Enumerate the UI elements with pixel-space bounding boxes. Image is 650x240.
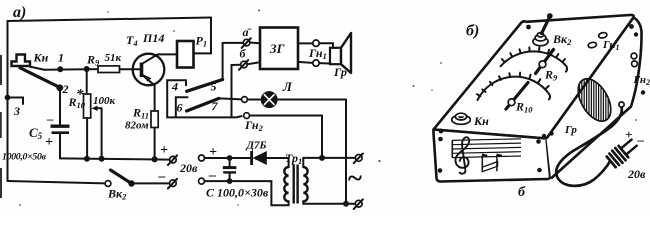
svg-text:+: + [160,143,168,158]
wire: Гн2 line down to secondary top [321,116,323,158]
node: junction on left rail [5,95,11,101]
generator ЗГ [260,28,298,70]
capacitor C 100,0x30в [206,155,269,199]
bottom rail [60,158,170,159]
wire: secondary bottom to ~ terminal [303,203,355,205]
svg-text:4: 4 [171,80,178,94]
rectifier + input terminal [199,145,252,161]
speaker Гр [319,33,351,79]
svg-text:82ом: 82ом [125,120,149,132]
switch Вк2 [105,170,170,202]
potentiometer R10 100к [68,69,116,159]
capacitor C5 [2,88,70,163]
svg-text:5: 5 [211,80,217,94]
terminal 3 stub [8,98,24,105]
jack pair Гн2 on right face [631,53,650,87]
power plug [606,136,639,168]
svg-text:*: * [76,87,84,103]
svg-text:Гр: Гр [333,65,347,79]
device box front face [434,130,551,182]
button Кн on top face [452,113,489,128]
svg-text:–: – [46,111,54,126]
svg-text:Л: Л [282,79,293,94]
svg-text:2: 2 [62,82,69,96]
resistor R11 82ом [125,106,158,159]
notes [482,155,497,172]
resistor R9 51к [86,52,133,73]
dial scale R9 [501,47,567,82]
node a terminal net [223,25,260,79]
jack Гн1 (pair of sockets) [308,40,327,66]
wire: left rail [7,21,9,181]
relay coil P1 [177,34,207,68]
toggle switch Вк2 [533,13,572,47]
wire: button to node 1 to R9 [30,67,98,70]
relay contact group 4-5-6-7 [167,80,242,118]
wire: secondary top to ~ terminal [303,157,355,159]
svg-text:1: 1 [58,51,64,65]
terminal ~ top (slashed) [355,155,362,162]
musical staff on front face [452,137,521,173]
svg-text:~: ~ [347,163,362,193]
terminal -20в (slashed) [158,169,178,189]
junction node above R10 [84,66,90,72]
wire: bottom switch rail [8,181,106,183]
node б terminal net [232,47,261,118]
svg-text:+: + [625,127,632,142]
svg-text:7: 7 [212,99,219,113]
wire: top rail [8,18,212,22]
treble clef [455,137,469,173]
svg-text:б: б [240,47,247,61]
svg-text:Гр: Гр [564,124,577,136]
svg-text:–: – [637,132,645,147]
svg-text:100к: 100к [93,95,116,107]
transformer Тр1 [271,151,307,205]
wire: lamp line down right side [345,100,347,204]
device box top face [434,15,634,139]
svg-text:3: 3 [13,104,20,118]
svg-text:б: б [518,185,526,200]
jack pair Гн1 on top face [588,32,620,52]
screws on top face [439,129,444,134]
speaker grille [564,73,618,136]
svg-text:ЗГ: ЗГ [269,41,285,56]
svg-text:1000,0×50в: 1000,0×50в [2,152,47,163]
svg-text:П14: П14 [142,31,164,45]
svg-text:б): б) [466,23,479,40]
svg-text:Кн: Кн [473,114,489,128]
power cord [556,102,624,186]
wires ЗГ to Гн1 [298,42,313,44]
svg-text:20в: 20в [627,167,646,181]
svg-text:С 100,0×30в: С 100,0×30в [206,186,269,200]
wire: top rail descent to relay P1 [194,18,211,54]
terminal +20в (slashed) [160,143,198,175]
device box right face [547,18,642,179]
node 2 [56,84,63,91]
scan edge marks [0,55,2,198]
screws on front face [438,137,443,142]
pushbutton Кн [12,51,59,87]
jack Гн2 (pair of sockets) [242,97,322,133]
lamp Л [247,79,346,107]
transistor T4 П14 [126,31,177,111]
dial scale R10 [477,73,550,115]
terminal ~ bottom (slashed) [355,200,362,207]
svg-text:Д7Б: Д7Б [246,140,267,152]
svg-text:51к: 51к [105,52,122,64]
svg-text:Кн: Кн [33,51,49,65]
svg-text:20в: 20в [179,161,198,175]
svg-text:+: + [45,135,53,150]
svg-text:а): а) [13,4,26,21]
svg-text:–: – [158,169,166,184]
rectifier - input terminal [199,168,272,184]
node 1 [57,66,63,72]
diode Д7Б [246,140,289,166]
svg-text:6: 6 [177,101,183,115]
